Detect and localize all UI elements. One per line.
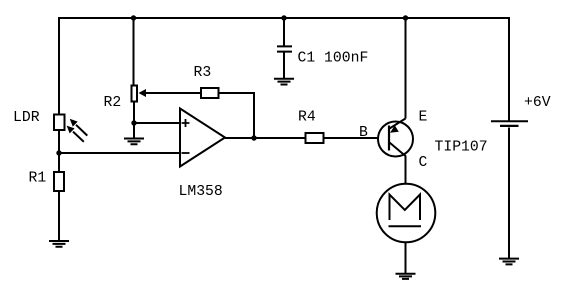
potentiometer R2 body — [132, 86, 138, 102]
wire R4 to transistor base — [324, 137, 389, 139]
TIP107 label — [435, 140, 488, 156]
wire rail to R2 top — [133, 17, 135, 85]
svg-text:R4: R4 — [298, 110, 316, 126]
svg-text:+6V: +6V — [524, 95, 551, 111]
ground below R2 — [124, 139, 144, 145]
battery BT1 negative plate — [500, 125, 519, 127]
LDR light arrow upper — [70, 119, 88, 136]
op-amp U1 triangle — [180, 109, 225, 167]
battery +6V label — [524, 95, 551, 111]
wire node to op-amp non-inverting input — [134, 122, 180, 124]
node junction output/feedback — [251, 135, 256, 140]
pin label B — [359, 125, 368, 141]
pin label E — [419, 110, 428, 126]
wire rail to battery positive — [508, 17, 510, 121]
svg-text:C1 100nF: C1 100nF — [298, 51, 369, 67]
node junction R2/op-amp non-inverting/ground — [131, 120, 136, 125]
resistor R1 — [54, 172, 64, 191]
op-amp plus input symbol — [182, 119, 190, 127]
resistor R3 — [201, 88, 219, 98]
transistor emitter arrow (PNP) — [390, 125, 399, 132]
motor M1 body circle — [377, 184, 436, 243]
R1 label — [29, 171, 47, 187]
LDR label — [13, 110, 40, 126]
wire op-amp output — [225, 137, 305, 139]
wire node to ground — [133, 123, 135, 139]
transistor base bar — [388, 126, 390, 151]
pin label C — [419, 155, 428, 171]
wire R1 to ground — [58, 192, 60, 242]
svg-text:TIP107: TIP107 — [435, 140, 488, 156]
svg-text:R1: R1 — [29, 171, 47, 187]
wire node to op-amp inverting input — [59, 152, 180, 154]
wire R2 wiper to R3 — [145, 92, 201, 94]
LM358 label — [179, 184, 223, 200]
wire left drop from rail to LDR — [58, 17, 60, 114]
wire rail to emitter — [405, 17, 407, 119]
wire motor to ground — [405, 243, 407, 274]
svg-text:R3: R3 — [194, 65, 212, 81]
svg-text:LDR: LDR — [13, 110, 40, 126]
motor M glyph — [390, 195, 421, 221]
node junction rail/R2 — [131, 15, 136, 20]
transistor collector line — [390, 143, 406, 157]
svg-text:E: E — [419, 110, 428, 126]
node junction rail/emitter branch — [403, 15, 408, 20]
wire LDR to R1 — [58, 131, 60, 172]
LDR photoresistor body — [54, 115, 65, 131]
wire C1 to ground — [283, 52, 285, 80]
motor underline — [389, 225, 422, 227]
svg-text:B: B — [359, 125, 368, 141]
ground below C1 — [274, 79, 294, 85]
wire battery to ground — [508, 128, 510, 260]
R2 wiper arrow — [139, 89, 147, 97]
ground below R1 — [49, 241, 69, 247]
capacitor C1 plates — [277, 46, 292, 51]
node junction LDR/R1/op-amp inverting input — [56, 150, 61, 155]
node junction rail/C1 — [281, 15, 286, 20]
battery BT1 positive plate — [491, 120, 528, 122]
R2 label — [104, 95, 122, 111]
wire R3 to output node (feedback) — [219, 93, 255, 138]
svg-text:C: C — [419, 155, 428, 171]
wire top supply rail — [59, 17, 509, 19]
op-amp minus input symbol — [182, 152, 190, 154]
C1 value label — [298, 51, 369, 67]
wire collector to motor — [405, 156, 407, 184]
transistor Q1 body circle — [378, 122, 413, 157]
svg-text:R2: R2 — [104, 95, 122, 111]
ground below motor — [396, 274, 416, 279]
svg-text:LM358: LM358 — [179, 184, 223, 200]
wire rail to C1 — [283, 17, 285, 46]
ground below battery — [499, 259, 519, 265]
LDR light arrow lower — [67, 126, 84, 142]
R3 label — [194, 65, 212, 81]
resistor R4 — [306, 133, 324, 143]
wire R2 bottom to node — [133, 102, 135, 123]
transistor emitter line — [390, 119, 406, 129]
R4 label — [298, 110, 316, 126]
